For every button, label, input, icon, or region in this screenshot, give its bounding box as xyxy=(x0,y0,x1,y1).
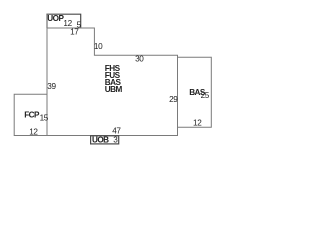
svg-text:29: 29 xyxy=(169,95,178,104)
FCP dividing wall xyxy=(46,94,48,135)
svg-text:30: 30 xyxy=(135,55,144,64)
svg-text:25: 25 xyxy=(201,91,210,100)
UOP porch box outline xyxy=(47,14,81,28)
svg-text:UBM: UBM xyxy=(105,85,123,94)
svg-text:47: 47 xyxy=(112,126,121,135)
svg-text:FCP: FCP xyxy=(24,110,40,119)
svg-text:UOB: UOB xyxy=(92,136,109,145)
svg-text:UOP: UOP xyxy=(47,14,64,23)
svg-text:12: 12 xyxy=(193,119,202,128)
svg-text:15: 15 xyxy=(40,114,49,123)
svg-text:12: 12 xyxy=(63,19,72,28)
BAS right wing outline xyxy=(178,57,212,127)
svg-text:39: 39 xyxy=(47,82,56,91)
svg-text:17: 17 xyxy=(70,28,79,37)
svg-text:12: 12 xyxy=(29,128,38,137)
main building outline xyxy=(14,14,177,135)
svg-text:10: 10 xyxy=(94,42,103,51)
UOB box outline xyxy=(91,136,119,144)
